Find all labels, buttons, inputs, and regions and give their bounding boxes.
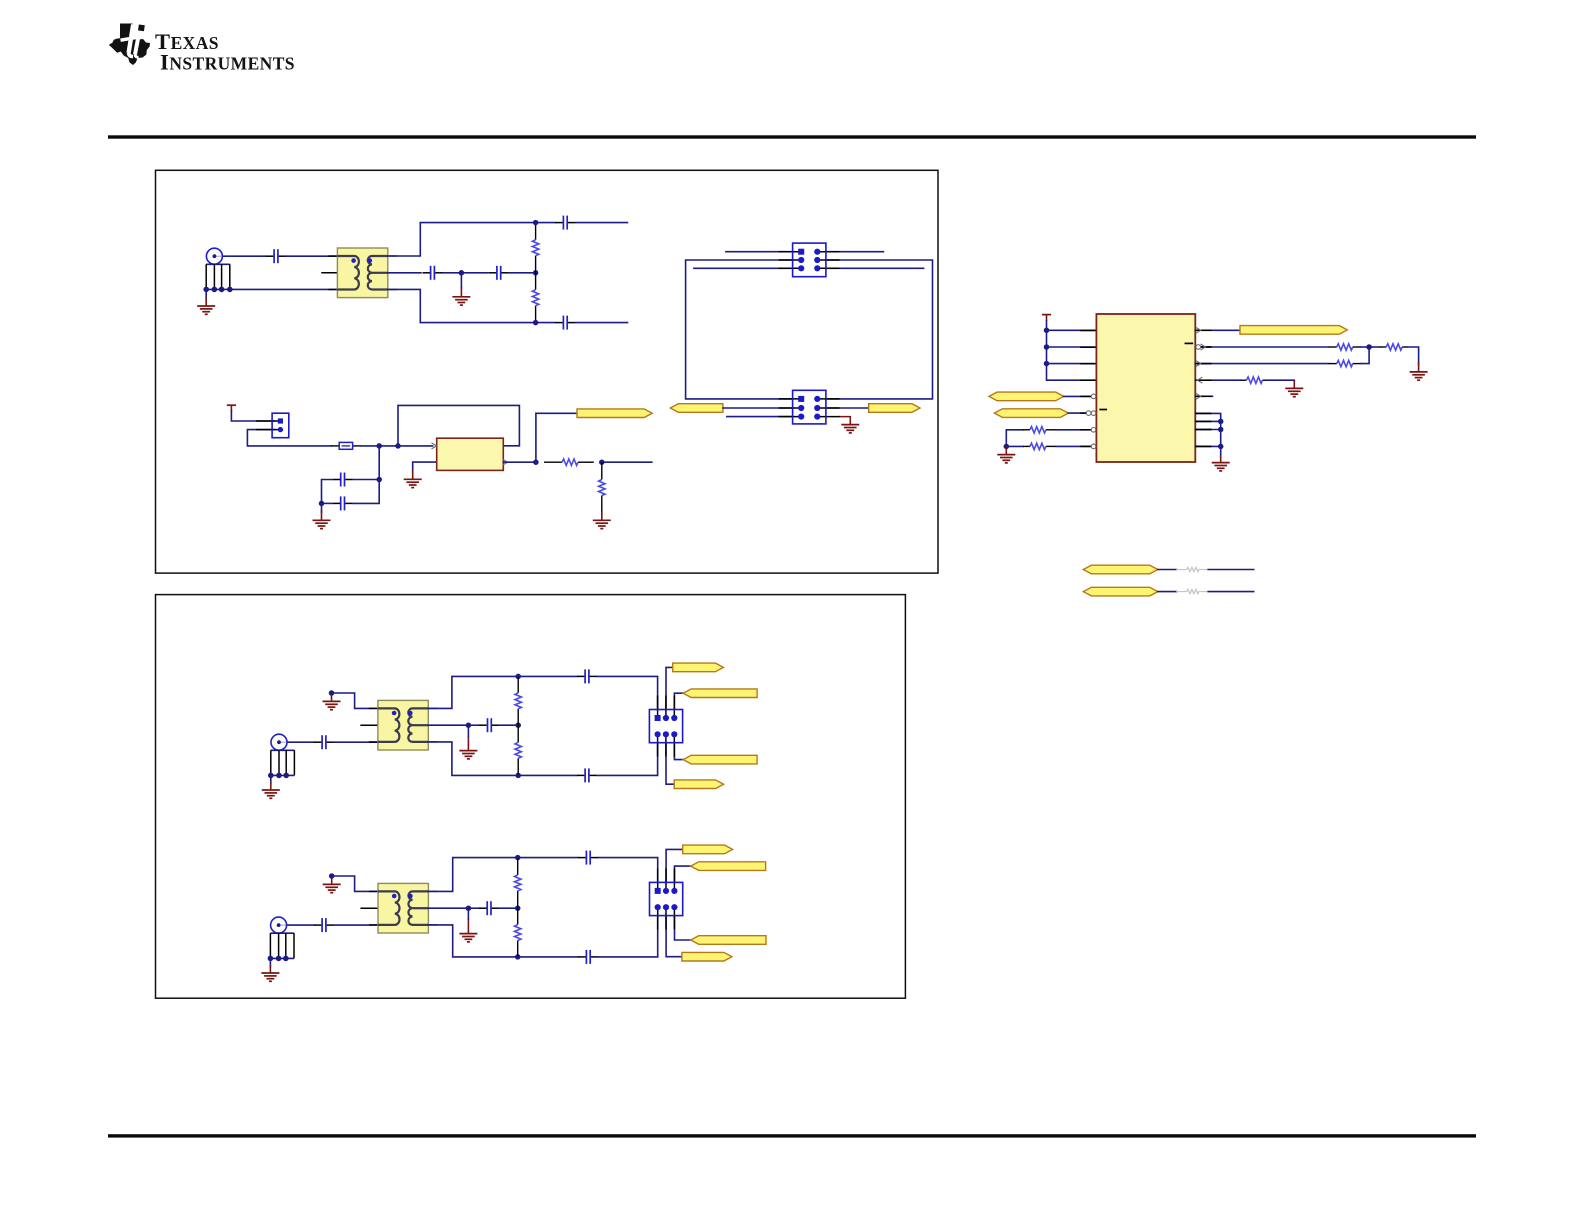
loopback rectangle wire (686, 260, 793, 399)
pin L6 double bubble (1086, 411, 1091, 416)
capacitor C2 (423, 266, 443, 280)
wire J1 shield bus to T1 primary bottom (230, 288, 338, 290)
wire SMA D to coupling cap (287, 741, 314, 743)
wire tag A to grey resistor (1158, 569, 1177, 571)
ground at J4 row3 (841, 421, 859, 433)
wire C6 right to node B3 (353, 479, 379, 481)
wire pin R5 stub (1195, 395, 1212, 397)
junction Dtop (515, 674, 521, 680)
resistor R7 (1329, 344, 1361, 350)
wire header col3 bottom to tag3 (675, 916, 691, 940)
net tag CLK out (577, 409, 652, 418)
wire J2 pin 2 to ferrite bead FB1 (247, 430, 331, 446)
capacitor C5 (555, 316, 575, 330)
junction Egnd-ref (329, 873, 335, 879)
wire bus to pin L2 (1047, 346, 1097, 348)
wire ground-ref to DT top (332, 693, 378, 708)
capacitor DCmid (479, 718, 499, 732)
net tag J4 right (869, 404, 920, 413)
wire node B1 to load caps (378, 446, 380, 480)
loopback rectangle wire right (826, 260, 933, 399)
pin R2 bubble and chevron (1196, 345, 1201, 350)
IC right pin black leads overlay (1195, 329, 1211, 331)
resistor R6 (1023, 443, 1056, 449)
wire T1 secondary bottom to bottom rail (388, 289, 536, 322)
wire resistor R6 to pin L8 (1006, 445, 1023, 447)
node A1 junction (459, 270, 465, 276)
IC U2 pin leads (1080, 330, 1096, 332)
transformer DT (369, 700, 437, 750)
resistor ERbot (515, 908, 521, 957)
wire pin R1 to output tag (1195, 329, 1240, 331)
coupling capacitor ECin (314, 918, 334, 932)
wire header col2 top to tag1 (666, 849, 683, 882)
resistor R2 bottom divider (532, 273, 538, 323)
node B3 junction (376, 477, 382, 483)
net tag to J4 row2 left (670, 404, 723, 413)
resistor R10 (1241, 377, 1269, 383)
junction R7b (1218, 419, 1224, 425)
pin R2 overbar mark (1185, 342, 1192, 344)
wire node C1 to R8 (1369, 346, 1380, 348)
net tag input L6 (994, 409, 1068, 418)
wire ET center tap to node (428, 907, 468, 909)
wire node B6 stub right (602, 461, 652, 463)
wire bottom rail to ECser2 (518, 956, 579, 958)
svg-text:INSTRUMENTS: INSTRUMENTS (160, 49, 295, 74)
resistor R1 top divider (532, 223, 538, 273)
oscillator buffer U1 (437, 438, 504, 470)
ground below DJ (262, 782, 280, 798)
ferrite bead FB1 (331, 442, 361, 449)
pin R4 chevron (1197, 377, 1202, 383)
wire DCmid to divider (499, 724, 518, 726)
wire DCser2 to header col1 bottom (597, 743, 658, 776)
wire T1 secondary top to top rail (388, 223, 536, 256)
junction Dbot (515, 773, 521, 779)
wire bus to pin L3 (1047, 363, 1097, 365)
pin R1 chevron (1196, 327, 1201, 333)
wire bottom rail to DCser2 (518, 774, 577, 776)
junction L8 net (1004, 444, 1010, 450)
wire pin R2 long (1195, 346, 1328, 348)
wire header col3 top to tag2 (675, 866, 691, 882)
IC U2 (1096, 314, 1195, 462)
wire node A1 to C3 (461, 272, 488, 274)
junction Dmid (515, 722, 521, 728)
wire J3 row1 left stub (726, 251, 793, 253)
wire tag to J4 row2 (723, 407, 793, 409)
resistor R4 pulldown (599, 462, 605, 512)
wire C5 output stub (576, 322, 628, 324)
wire R6 to L8 (1056, 445, 1097, 447)
header J2 (256, 413, 289, 438)
wire VCC1 to J2 pin 1 (231, 411, 274, 421)
power tap VCC2 (1042, 315, 1051, 321)
wire node B5 up to output tag (536, 413, 577, 462)
wire bottom rail to C5 (536, 322, 555, 324)
wire pin R7b to right bus (1195, 420, 1220, 422)
node A2 junction (533, 270, 539, 276)
capacitor C4 (555, 216, 575, 230)
wire C4 output stub (576, 222, 628, 224)
wire ECser1 to header col1 (598, 858, 657, 883)
wire top rail to DCser1 (518, 675, 577, 677)
wire DT sec top to top rail (428, 676, 518, 708)
no-connect stub T1 pin 2 (322, 272, 338, 274)
net tag DN in (683, 755, 757, 764)
wire pin R3 (1195, 363, 1328, 365)
wire J1 center to C1 (222, 255, 266, 257)
wire node to ECmid (468, 907, 479, 909)
wire resistor R5 to pin L7 (1006, 429, 1023, 431)
transformer T1 (328, 248, 396, 298)
ground ref E (323, 878, 341, 893)
junction top rail (533, 220, 539, 226)
SMA connector DJ (268, 734, 294, 778)
junction L3 (1044, 361, 1050, 367)
wire J4 row2 right to tag (826, 407, 869, 409)
capacitor ECser2 (578, 950, 598, 964)
resistor R5 (1023, 427, 1056, 433)
wire header col3 bottom to tag3 (674, 743, 683, 760)
node B2 junction (395, 443, 401, 449)
ground below buffer (404, 470, 422, 488)
no-connect stub DT pin2 (361, 724, 378, 726)
SMA connector EJ (268, 917, 294, 961)
junction L1 (1044, 328, 1050, 334)
ground below right bus (1220, 446, 1222, 457)
wire header col2 top to tag1 (666, 667, 673, 709)
wire pin R6 to right bus (1195, 413, 1220, 446)
junction bottom rail (533, 320, 539, 326)
ground stem EJ (269, 958, 271, 966)
capacitor C3 (489, 266, 509, 280)
SMA connector J1 (203, 248, 232, 292)
buffer output pin chevron (503, 459, 508, 465)
wire C7 left to node B4 (322, 502, 333, 504)
left power bus (1047, 321, 1097, 380)
wire pin R8b to right bus (1195, 429, 1220, 431)
capacitor ECmid (479, 901, 499, 915)
wire ET sec bottom to bottom rail (428, 925, 517, 957)
net tag EN in (691, 936, 766, 945)
pin R3 chevron (1196, 361, 1201, 367)
junction Emid (515, 905, 521, 911)
wire R11 right stub (1208, 569, 1254, 571)
junction Ect (466, 905, 472, 911)
net tag DP in (683, 689, 757, 698)
ground below Dct (459, 736, 477, 759)
ground below Ect (459, 919, 477, 942)
net tag R1 output (1240, 326, 1347, 335)
resistor R9 (1329, 360, 1361, 366)
ground ref D (323, 695, 341, 710)
schematic sheet border box 2 (156, 595, 906, 999)
wire R7 to node C1 (1361, 346, 1369, 348)
wire C6 left to C7 left (322, 480, 333, 504)
capacitor C1 (266, 249, 286, 263)
wire tag B to grey resistor (1158, 591, 1177, 593)
header EJh (650, 868, 683, 929)
wire tag to pin L5 (1064, 395, 1097, 397)
wire ET sec top to top rail (428, 858, 517, 892)
pin L8 bubble (1091, 444, 1096, 449)
wire tag to pin L6 (1068, 412, 1096, 414)
resistor ERtop (515, 858, 521, 909)
ground below L7/L8 resistors (997, 446, 1015, 463)
capacitor DCser2 (577, 768, 597, 782)
ground below node B4 (321, 503, 323, 512)
wire header col2 bottom to tag4 (666, 916, 682, 957)
transformer ET (369, 883, 437, 933)
wire R10 to ground (1269, 379, 1295, 382)
wire C2 to node A1 (443, 272, 461, 274)
wire J4 row3 left stub (727, 416, 793, 418)
node B1 junction (376, 443, 382, 449)
wire FB1 to buffer input (361, 445, 433, 447)
wire ECmid to divider (499, 907, 518, 909)
header J4 (779, 390, 840, 424)
wire cap to ET primary bottom (334, 924, 378, 926)
net tag EP out (683, 845, 733, 854)
ground below R4 (593, 512, 611, 529)
grey resistor R11 (1176, 567, 1209, 571)
net tag series A (1083, 565, 1158, 574)
wire top rail to C4 (536, 222, 555, 224)
resistor R8 (1380, 344, 1408, 350)
junction Ebot (515, 954, 521, 960)
capacitor DCser1 (577, 669, 597, 683)
junction L2 (1044, 344, 1050, 350)
wire R9 up to node C1 (1361, 347, 1369, 364)
grey resistor R12 (1176, 589, 1209, 593)
wire C3 to node A2 (509, 272, 536, 274)
wire header col2 bottom to tag4 (666, 743, 674, 785)
header J3 (779, 243, 840, 277)
junction Dgnd-ref (329, 690, 335, 696)
schematic sheet border box 1 (156, 170, 939, 573)
wire T1 center tap to C2 (388, 272, 421, 274)
node B6 junction (599, 459, 605, 465)
net tag DN out (674, 780, 723, 789)
net tag EN out (682, 952, 732, 961)
node C1 junction (1366, 344, 1372, 350)
wire buffer output to node B5 (503, 461, 536, 463)
wire node to DCmid (468, 724, 479, 726)
net tag series B (1083, 587, 1158, 596)
ground below J1 (205, 289, 207, 299)
wire L7 branch down to L8 (1005, 430, 1007, 447)
Texas Instruments logo (109, 24, 150, 66)
ground right of R8 (1410, 362, 1428, 380)
wire header col3 top to tag2 (674, 693, 683, 709)
wire J3 row3 left stub (694, 267, 793, 269)
resistor DRtop (515, 676, 521, 725)
junction R9b (1218, 444, 1224, 450)
wire J4 row3 right to ground (840, 417, 851, 422)
net tag DP out (673, 663, 724, 672)
wire SMA E to coupling cap (287, 924, 314, 926)
wire DCser1 to header col1 (597, 676, 658, 709)
buffer input pin chevron (432, 443, 437, 449)
capacitor ECser1 (578, 851, 598, 865)
pin L5 bubble (1091, 394, 1096, 399)
wire pin R4 (1195, 379, 1240, 381)
pin L6 overbar mark (1100, 409, 1106, 411)
wire C1 to T1 primary top (286, 255, 337, 257)
wire DT sec bottom to bottom rail (428, 742, 518, 776)
wire C7 right leg (353, 480, 379, 504)
feedback loop wire (398, 405, 519, 446)
wire DT center tap to node (428, 724, 468, 726)
resistor R3 series (544, 459, 594, 465)
pin R5 chevron (1196, 393, 1201, 399)
wire R12 right stub (1208, 591, 1254, 593)
wire ground-ref to ET top (332, 876, 378, 891)
wire J3 row3 right stub (826, 267, 924, 269)
resistor DRbot (515, 725, 521, 775)
buffer ground wire (413, 462, 437, 471)
wire bus to pin L1 (1047, 329, 1097, 331)
pin L7 bubble (1091, 428, 1096, 433)
header DJh (649, 696, 682, 757)
junction R8b (1218, 427, 1224, 433)
net tag EP in (691, 862, 766, 871)
wire cap to DT primary bottom (334, 741, 378, 743)
wire pin R9b to right bus (1195, 445, 1220, 447)
junction Etop (515, 855, 521, 861)
capacitor C7 (333, 496, 353, 510)
wire R8 to ground (1408, 347, 1418, 365)
power tap VCC1 (227, 405, 236, 412)
node B5 junction (533, 459, 539, 465)
ground stem DJ (270, 775, 272, 783)
no-connect stub ET pin2 (361, 907, 378, 909)
top horizontal rule (108, 135, 1476, 138)
coupling capacitor DCin (314, 735, 334, 749)
wire J3 row1 right stub (826, 251, 884, 253)
node B4 junction (319, 501, 325, 507)
junction Dct (466, 722, 472, 728)
bottom horizontal rule (108, 1134, 1476, 1137)
net tag input L5 (989, 392, 1064, 401)
ground below EJ (261, 965, 279, 981)
wire top rail to ECser1 (518, 857, 579, 859)
capacitor C6 (333, 473, 353, 487)
ground right of R10 (1285, 380, 1303, 397)
ground below node A1 (460, 273, 462, 289)
wire ECser2 to header col1 bottom (598, 916, 657, 957)
wire R5 to L7 (1056, 429, 1097, 431)
